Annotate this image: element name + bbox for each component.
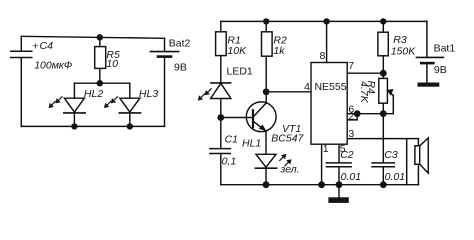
wire base of VT1 xyxy=(221,117,253,119)
svg-text:C3: C3 xyxy=(384,149,398,161)
capacitor C3 xyxy=(372,114,394,185)
wire pin 5 xyxy=(338,144,340,163)
svg-text:2: 2 xyxy=(348,110,354,122)
svg-text:8: 8 xyxy=(319,50,325,62)
node HL2 bottom xyxy=(71,123,77,129)
wire top rail right circuit xyxy=(221,20,427,22)
ground xyxy=(328,185,348,203)
LED HL1 xyxy=(255,154,276,184)
resistor R1 xyxy=(216,21,227,83)
wire pin 8 xyxy=(326,21,328,62)
svg-text:HL1: HL1 xyxy=(242,138,261,150)
resistor R3 xyxy=(378,21,388,73)
node HL1 bottom xyxy=(263,181,270,188)
svg-text:LED1: LED1 xyxy=(227,65,253,77)
wire pin 4 xyxy=(266,91,311,93)
node R2 top xyxy=(263,18,269,24)
node C2 bottom xyxy=(336,181,343,188)
node pin8 top rail xyxy=(323,18,329,24)
wire pin 6 xyxy=(347,113,393,115)
HL2 emission arrows xyxy=(55,97,62,104)
svg-text:9В: 9В xyxy=(434,64,447,76)
capacitor C1 xyxy=(210,118,231,185)
wire pin 2 xyxy=(347,114,357,120)
LED HL3 xyxy=(119,83,140,126)
svg-text:HL2: HL2 xyxy=(84,88,103,100)
LED1 emission arrows xyxy=(205,89,212,96)
transistor VT1 xyxy=(246,92,276,155)
node LED1/C1/base xyxy=(217,114,224,121)
svg-text:Bat2: Bat2 xyxy=(169,38,191,50)
svg-text:150K: 150K xyxy=(391,45,417,57)
wire pin 1 xyxy=(321,144,323,185)
svg-text:10K: 10K xyxy=(227,45,247,57)
wire left branch lower xyxy=(20,58,22,127)
svg-text:7: 7 xyxy=(348,60,354,72)
svg-text:NE555: NE555 xyxy=(314,81,346,93)
battery Bat2 xyxy=(150,38,178,126)
capacitor C4 xyxy=(11,51,32,57)
svg-text:зел.: зел. xyxy=(280,163,300,175)
svg-text:C1: C1 xyxy=(225,134,238,146)
svg-text:10: 10 xyxy=(106,58,118,70)
svg-text:4.7K: 4.7K xyxy=(358,81,370,104)
wire pin 3 xyxy=(347,138,418,140)
node R3 top rail xyxy=(380,18,386,24)
svg-text:R3: R3 xyxy=(393,34,407,46)
node top of R5 xyxy=(97,34,103,40)
node pin1 bottom xyxy=(318,181,325,188)
wire left branch upper xyxy=(20,36,22,51)
IC U1 NE555 xyxy=(311,63,347,145)
svg-text:4: 4 xyxy=(304,81,310,93)
node pins 2-6 xyxy=(354,110,361,117)
svg-text:1: 1 xyxy=(323,143,329,155)
svg-text:9В: 9В xyxy=(174,62,187,74)
svg-text:Bat1: Bat1 xyxy=(434,43,456,55)
svg-text:3: 3 xyxy=(348,128,354,140)
LED LED1 xyxy=(211,83,231,118)
battery Bat1 xyxy=(416,21,443,82)
HL1 emission arrows xyxy=(280,154,287,161)
resistor R5 xyxy=(95,37,106,83)
svg-text:100мкФ: 100мкФ xyxy=(34,60,72,72)
loudspeaker xyxy=(407,138,429,185)
LED HL2 xyxy=(64,83,85,126)
node HL3 bottom xyxy=(127,123,133,129)
wire bottom rail right circuit xyxy=(221,184,419,186)
svg-text:0,1: 0,1 xyxy=(222,155,237,167)
node R4 bottom / pins 2-6 junction xyxy=(380,110,387,117)
svg-text:0.01: 0.01 xyxy=(385,171,405,183)
svg-text:0.01: 0.01 xyxy=(341,171,361,183)
wire T bar to LEDs xyxy=(74,82,129,84)
svg-text:1k: 1k xyxy=(273,45,285,57)
svg-text:C4: C4 xyxy=(40,40,54,52)
svg-text:HL3: HL3 xyxy=(139,88,158,100)
node C3 bottom xyxy=(380,181,387,188)
HL3 emission arrows xyxy=(111,97,118,104)
svg-text:+: + xyxy=(32,41,38,53)
node bottom of R5 xyxy=(97,80,103,86)
capacitor C2 xyxy=(326,163,351,185)
node R2/collector/pin4 xyxy=(263,88,270,95)
ground below Bat1 xyxy=(418,83,440,87)
resistor R2 xyxy=(262,21,273,91)
svg-text:C2: C2 xyxy=(340,149,354,161)
node pin7/R3/R4 xyxy=(380,70,387,77)
wire top rail left circuit xyxy=(21,36,164,38)
wire pin 7 xyxy=(347,72,383,74)
wire bottom rail left circuit xyxy=(21,125,164,127)
svg-text:BC547: BC547 xyxy=(271,133,304,145)
potentiometer R4 xyxy=(379,73,394,114)
